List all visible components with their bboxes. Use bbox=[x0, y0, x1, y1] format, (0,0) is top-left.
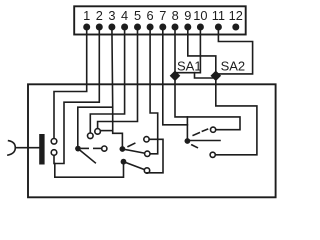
svg-text:12: 12 bbox=[229, 8, 243, 23]
switch B contact C2 circle bbox=[145, 151, 150, 156]
svg-text:5: 5 bbox=[134, 8, 141, 23]
jack contact A (upper circle) bbox=[51, 139, 57, 145]
wire pin7 to switch pole C bbox=[163, 27, 188, 138]
terminal dot 4 bbox=[121, 24, 128, 31]
wire branch pin3 to switch pole A bbox=[78, 107, 113, 146]
switch B pole B2 dot bbox=[121, 159, 127, 165]
svg-text:6: 6 bbox=[147, 8, 154, 23]
wire pin2 staircase to jack contact B bbox=[55, 27, 100, 164]
junction diamond SA1 node bbox=[170, 71, 179, 80]
switch C linkage dash up 2 bbox=[202, 129, 207, 131]
terminal dot 1 bbox=[83, 24, 90, 31]
wire pin9 jog to diamond junction 2 bbox=[188, 27, 216, 76]
terminal dot 12 bbox=[232, 24, 239, 31]
switch B contact C3 circle bbox=[144, 168, 149, 173]
wire diamond 1 down to switch C upper contact bbox=[175, 80, 240, 129]
wire contact B stub down bbox=[53, 155, 55, 163]
switch B lever B1 bbox=[122, 149, 144, 153]
terminal dot 2 bbox=[96, 24, 103, 31]
terminal dot 6 bbox=[147, 24, 154, 31]
wire jack tip into plug bar bbox=[15, 147, 39, 149]
terminal dot 7 bbox=[159, 24, 166, 31]
switch C lower contact circle bbox=[210, 152, 215, 157]
terminal dot 10 bbox=[197, 24, 204, 31]
plug bar (jack plunger) bbox=[39, 134, 44, 165]
svg-text:3: 3 bbox=[108, 8, 115, 23]
svg-text:1: 1 bbox=[83, 8, 90, 23]
wire stub pole C riser up to junction row bbox=[186, 117, 188, 125]
terminal block XS1 (connector box) bbox=[74, 6, 246, 34]
jack socket arc bbox=[8, 141, 15, 155]
switch B linkage dash bbox=[128, 143, 135, 146]
switch C upper contact circle bbox=[211, 127, 216, 132]
terminal dot 3 bbox=[108, 24, 115, 31]
wire contact B net down to switch pole B2 bbox=[55, 164, 124, 178]
svg-text:SA1: SA1 bbox=[177, 59, 202, 74]
wire diamond 2 down to switch C lower contact bbox=[215, 80, 257, 154]
terminal dot 5 bbox=[134, 24, 141, 31]
svg-text:2: 2 bbox=[96, 8, 103, 23]
wire pin8 down to diamond junction 1 bbox=[174, 27, 176, 76]
switch C lever (horizontal) bbox=[190, 140, 220, 142]
jack contact B (lower circle) bbox=[51, 150, 57, 156]
wire pin11 loop around SA2 label to diamond 2 bbox=[218, 27, 252, 74]
switch B lever B2 bbox=[124, 162, 144, 170]
wire pin1 staircase to jack contact A bbox=[54, 27, 87, 139]
wire contact D stub to pin3 descent bbox=[100, 130, 112, 132]
switch A linkage dash 1 bbox=[82, 147, 89, 149]
svg-text:8: 8 bbox=[172, 8, 179, 23]
switch A lever bbox=[78, 149, 95, 163]
junction diamond SA2 node bbox=[211, 71, 220, 80]
terminal dot 9 bbox=[184, 24, 191, 31]
switch C pole dot bbox=[185, 138, 191, 144]
wire pin10 down and left under SA1 label to diamond 1 bbox=[177, 27, 201, 73]
svg-text:7: 7 bbox=[159, 8, 166, 23]
chassis box (screen enclosure) bbox=[28, 84, 276, 197]
wire branch from pin10 link down to diamond 2 bbox=[195, 73, 214, 78]
svg-text:4: 4 bbox=[121, 8, 128, 23]
svg-text:9: 9 bbox=[184, 8, 191, 23]
switch B pole B1 dot bbox=[120, 146, 126, 152]
svg-text:11: 11 bbox=[212, 8, 225, 23]
wire pin4 staircase to contact C bbox=[90, 27, 124, 133]
wire pin3 descent with branch to pole A bbox=[112, 27, 123, 146]
switch A contact C circle bbox=[88, 133, 94, 139]
terminal dot 8 bbox=[172, 24, 179, 31]
wire pin6 jog to contact C2 of switch B bbox=[150, 27, 158, 154]
switch A pole dot bbox=[75, 146, 81, 152]
switch A linkage end circle bbox=[102, 146, 107, 151]
svg-text:SA2: SA2 bbox=[221, 59, 246, 74]
terminal dot 11 bbox=[215, 24, 222, 31]
wire pin5 staircase to contact D bbox=[98, 27, 138, 129]
switch A linkage dash 2 bbox=[94, 147, 101, 149]
svg-text:10: 10 bbox=[193, 8, 207, 23]
switch C linkage dash up 1 bbox=[193, 133, 199, 136]
wire bridge contact C1 to contact C3 bbox=[147, 139, 163, 173]
switch A contact D circle bbox=[95, 129, 101, 135]
switch B contact C1 circle bbox=[144, 137, 149, 142]
switch C linkage dash down bbox=[192, 145, 198, 148]
